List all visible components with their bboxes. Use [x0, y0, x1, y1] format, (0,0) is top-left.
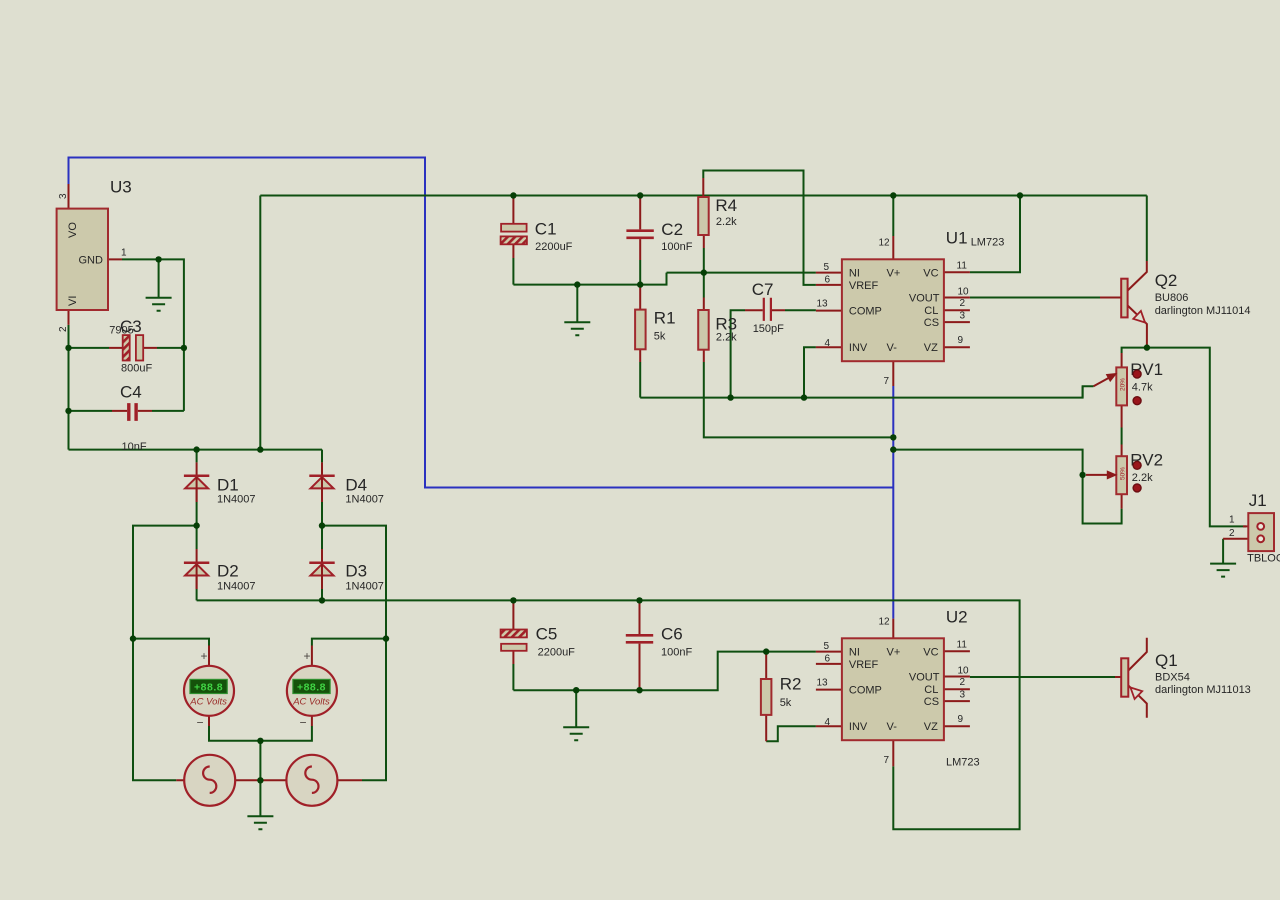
svg-text:100nF: 100nF — [661, 647, 692, 659]
svg-text:COMP: COMP — [849, 305, 882, 317]
svg-text:Q2: Q2 — [1155, 271, 1178, 290]
svg-text:5: 5 — [824, 262, 830, 273]
wire C4 right — [152, 410, 184, 412]
svg-text:NI: NI — [849, 267, 860, 279]
wire D4 top — [321, 450, 323, 463]
wire D1 top — [196, 450, 198, 463]
wire R4 bottom — [703, 248, 705, 273]
svg-text:150pF: 150pF — [753, 323, 784, 335]
svg-text:3: 3 — [960, 311, 966, 322]
capacitor C6 100nF — [626, 600, 693, 690]
wire D4-D3 node — [321, 502, 323, 549]
wire C3 left — [69, 347, 110, 349]
svg-text:C6: C6 — [661, 625, 683, 644]
svg-text:2.2k: 2.2k — [716, 216, 737, 228]
svg-text:5k: 5k — [780, 697, 792, 709]
node C6 bottom — [636, 687, 642, 693]
wire C7 left riser — [731, 310, 745, 397]
svg-text:10: 10 — [958, 666, 970, 677]
wire bridge output y=600.4 to U2 V- loop — [197, 600, 1020, 829]
svg-text:9: 9 — [958, 335, 964, 346]
svg-text:darlington MJ11013: darlington MJ11013 — [1155, 684, 1251, 696]
svg-text:VOUT: VOUT — [909, 292, 940, 304]
wire bridge top y=449.6 — [69, 449, 323, 451]
potentiometer RV2 2.2k — [1086, 445, 1163, 509]
svg-text:1: 1 — [121, 248, 127, 259]
op-amp regulator U1 LM723 — [816, 229, 1004, 388]
svg-text:U3: U3 — [110, 178, 132, 197]
wire C5 C6 top bus tap (part of y=600.4) — [512, 664, 514, 690]
svg-text:10: 10 — [958, 287, 970, 298]
svg-text:CS: CS — [924, 696, 939, 708]
wire INV riser U1 — [804, 347, 816, 397]
resistor R3 2.2k — [698, 298, 737, 363]
node Q2 emitter — [1144, 344, 1150, 350]
transistor Q2 BU806 — [1100, 261, 1251, 348]
svg-text:INV: INV — [849, 342, 868, 354]
resistor R2 5k — [761, 652, 802, 742]
svg-text:9: 9 — [958, 714, 964, 725]
wire voltmeter2 minus — [260, 726, 312, 741]
wire C3 right — [157, 347, 184, 349]
node voltmeter minus join — [257, 738, 263, 744]
svg-text:1N4007: 1N4007 — [217, 581, 256, 593]
svg-text:U1: U1 — [946, 229, 968, 248]
node gnd tap C5 — [573, 687, 579, 693]
node generators mid — [257, 777, 263, 783]
wire J1 pin1 — [1243, 525, 1246, 527]
svg-text:LM723: LM723 — [971, 237, 1005, 249]
svg-text:11: 11 — [957, 640, 968, 651]
svg-text:TBLOCK-M2: TBLOCK-M2 — [1247, 553, 1280, 565]
voltmeter V2 AC Volts — [287, 646, 337, 730]
node C3 left — [65, 345, 71, 351]
wire bridge right leg to generator — [322, 526, 386, 781]
svg-text:4: 4 — [825, 338, 831, 349]
svg-text:BDX54: BDX54 — [1155, 672, 1190, 684]
wire rail from top rail down to bridge x=260.3 — [259, 196, 261, 450]
wire INV bus y=397.6 to RV1 wiper — [640, 386, 1093, 397]
wire voltmeter2 plus — [312, 639, 386, 646]
svg-text:2200uF: 2200uF — [538, 647, 576, 659]
wire Q2 emitter node — [1122, 348, 1243, 527]
svg-text:+88.8: +88.8 — [297, 682, 326, 694]
node R3 blue — [890, 434, 896, 440]
capacitor C2 100nF — [626, 196, 692, 285]
capacitor C4 10nF — [112, 383, 152, 454]
diode D3 1N4007 — [309, 549, 384, 593]
svg-text:V+: V+ — [887, 646, 901, 658]
svg-text:AC Volts: AC Volts — [292, 697, 330, 708]
wire NI line y=272.6 — [667, 272, 816, 274]
diode D4 1N4007 — [309, 462, 384, 505]
transistor Q1 BDX54 — [1115, 638, 1251, 718]
wire R3 top — [703, 273, 705, 298]
wire C7 right to COMP — [785, 309, 816, 311]
svg-text:R2: R2 — [780, 675, 802, 694]
wire main top rail y=195.5 — [260, 195, 1147, 197]
capacitor C1 2200uF — [501, 196, 573, 259]
wire RV1 wiper stub — [1082, 386, 1084, 397]
node V2 plus — [383, 635, 389, 641]
svg-text:1N4007: 1N4007 — [217, 494, 256, 506]
wire R4 top link to VREF — [703, 171, 816, 285]
ground C5 area — [563, 727, 589, 740]
wire ground stem C5 area — [575, 690, 577, 727]
ground C1 area — [564, 322, 590, 335]
svg-text:CL: CL — [924, 684, 938, 696]
svg-text:5k: 5k — [654, 331, 666, 343]
node D3 bottom — [319, 597, 325, 603]
wire J1 pin2 ground — [1222, 539, 1224, 563]
svg-text:11: 11 — [957, 261, 968, 272]
node gnd tap C1 — [574, 281, 580, 287]
capacitor C5 2200uF — [501, 600, 576, 664]
wire C4 left — [69, 410, 113, 412]
svg-text:6: 6 — [825, 274, 831, 285]
svg-text:COMP: COMP — [849, 684, 882, 696]
voltmeter V1 AC Volts — [184, 646, 234, 730]
svg-text:20%: 20% — [1120, 378, 1127, 391]
connector J1 TBLOCK-M2 — [1223, 491, 1280, 565]
wire RV1-RV2 series link — [1121, 428, 1123, 445]
node C5 top — [510, 597, 516, 603]
svg-text:4.7k: 4.7k — [1132, 382, 1153, 394]
svg-text:GND: GND — [79, 255, 104, 267]
svg-text:2: 2 — [58, 326, 69, 332]
wire D1-D2 node — [196, 502, 198, 549]
svg-text:3: 3 — [58, 193, 69, 199]
wire voltmeter1 minus — [209, 726, 260, 741]
svg-text:J1: J1 — [1249, 491, 1267, 510]
svg-text:3: 3 — [960, 690, 966, 701]
svg-text:50%: 50% — [1120, 467, 1127, 480]
svg-text:+: + — [304, 649, 311, 663]
svg-text:VI: VI — [67, 296, 79, 306]
wire U3 GND net — [122, 259, 184, 411]
wire R3 bottom to blue node — [704, 362, 894, 437]
node rail bottom — [257, 446, 263, 452]
wire R1 bottom — [639, 362, 641, 398]
node C2 top — [637, 192, 643, 198]
capacitor C7 150pF — [745, 280, 785, 335]
svg-text:C5: C5 — [536, 625, 558, 644]
node V1 plus — [130, 635, 136, 641]
wire R2 bottom to U2 INV — [766, 726, 816, 741]
potentiometer RV1 4.7k — [1094, 353, 1164, 428]
resistor R4 2.2k — [698, 178, 737, 248]
wire U1 VC riser — [970, 196, 1020, 273]
node INV riser — [801, 394, 807, 400]
svg-text:+: + — [201, 649, 208, 663]
svg-text:R1: R1 — [654, 309, 676, 328]
generator G1 — [176, 755, 260, 806]
svg-text:+88.8: +88.8 — [194, 682, 223, 694]
wire U1 VOUT to Q2 base — [970, 297, 1100, 299]
svg-text:10nF: 10nF — [122, 441, 147, 453]
node U3 gnd — [155, 256, 161, 262]
svg-text:D3: D3 — [345, 562, 367, 581]
node C6 top — [636, 597, 642, 603]
generator G2 — [260, 755, 362, 806]
node D1-D2 — [193, 522, 199, 528]
node C2-R1 — [637, 281, 643, 287]
svg-text:−: − — [300, 716, 307, 730]
node RV2 blue — [890, 446, 896, 452]
svg-text:R4: R4 — [715, 196, 737, 215]
svg-text:800uF: 800uF — [121, 363, 152, 375]
svg-text:2.2k: 2.2k — [1132, 472, 1153, 484]
node C4 left — [65, 408, 71, 414]
wire U2 VOUT to Q1 base — [970, 676, 1115, 678]
wire U1 V+ riser — [892, 196, 894, 237]
svg-text:7: 7 — [884, 376, 890, 387]
svg-text:C7: C7 — [752, 280, 774, 299]
wire C1 bottom — [512, 258, 514, 285]
svg-text:100nF: 100nF — [661, 241, 692, 253]
svg-text:2: 2 — [1229, 528, 1235, 539]
ground U3 — [146, 259, 172, 310]
svg-text:13: 13 — [817, 298, 829, 309]
node C1 top — [510, 192, 516, 198]
svg-text:13: 13 — [817, 677, 829, 688]
node VC rail — [1017, 192, 1023, 198]
regulator U3 7905 — [57, 178, 134, 337]
svg-text:2: 2 — [960, 298, 966, 309]
wire bridge left leg to generator — [133, 526, 197, 781]
node U1 V+ rail — [890, 192, 896, 198]
svg-text:C4: C4 — [120, 383, 142, 402]
svg-text:7: 7 — [884, 755, 890, 766]
svg-text:C1: C1 — [535, 220, 557, 239]
svg-text:Q1: Q1 — [1155, 651, 1178, 670]
svg-text:V+: V+ — [887, 267, 901, 279]
svg-text:2200uF: 2200uF — [535, 241, 573, 253]
node C7 riser — [727, 394, 733, 400]
svg-text:LM723: LM723 — [946, 757, 980, 769]
svg-text:2.2k: 2.2k — [716, 331, 737, 343]
svg-text:NI: NI — [849, 646, 860, 658]
svg-text:VOUT: VOUT — [909, 671, 940, 683]
wire ground stem C1 area — [576, 285, 578, 322]
svg-text:D2: D2 — [217, 562, 239, 581]
wire center ground drop — [259, 741, 261, 816]
svg-text:1N4007: 1N4007 — [345, 581, 384, 593]
svg-text:D1: D1 — [217, 476, 239, 495]
diode D1 1N4007 — [184, 462, 256, 505]
resistor R1 5k — [635, 285, 675, 362]
node RV2 wiper — [1079, 472, 1085, 478]
svg-text:BU806: BU806 — [1155, 292, 1189, 304]
wire blue net from U3 VO to U1 V- and U2 V+ — [69, 158, 894, 619]
svg-text:VREF: VREF — [849, 280, 879, 292]
node R2 top NI U2 — [763, 648, 769, 654]
svg-text:12: 12 — [879, 238, 891, 249]
svg-text:6: 6 — [825, 653, 831, 664]
svg-text:1: 1 — [1229, 515, 1235, 526]
node R4-NI — [701, 269, 707, 275]
svg-text:4: 4 — [825, 717, 831, 728]
wire ground bus y=284.6 — [513, 273, 666, 285]
svg-text:V-: V- — [887, 721, 898, 733]
svg-text:5: 5 — [824, 641, 830, 652]
svg-text:U2: U2 — [946, 608, 968, 627]
wire U3 input rail x=68.5 — [68, 325, 70, 450]
wire ground bus y=690.2 — [513, 652, 816, 691]
svg-text:1N4007: 1N4007 — [345, 494, 384, 506]
svg-text:C3: C3 — [120, 317, 142, 336]
svg-text:VC: VC — [923, 267, 938, 279]
wire D3 bottom — [321, 589, 323, 600]
svg-text:−: − — [197, 716, 204, 730]
wire RV2 net from blue node y=449.6 — [893, 450, 1121, 524]
node D1 top — [193, 446, 199, 452]
svg-text:VC: VC — [923, 646, 938, 658]
svg-text:CS: CS — [924, 317, 939, 329]
diode D2 1N4007 — [184, 549, 256, 593]
svg-text:VZ: VZ — [924, 342, 938, 354]
svg-text:darlington MJ11014: darlington MJ11014 — [1155, 305, 1251, 317]
svg-text:VREF: VREF — [849, 659, 879, 671]
svg-text:VO: VO — [67, 222, 79, 238]
wire D2 bottom — [196, 589, 198, 600]
svg-text:V-: V- — [887, 342, 898, 354]
svg-text:2: 2 — [960, 677, 966, 688]
svg-text:D4: D4 — [345, 476, 367, 495]
svg-text:VZ: VZ — [924, 721, 938, 733]
op-amp regulator U2 LM723 — [816, 608, 980, 769]
ground generators — [247, 816, 273, 829]
svg-text:C2: C2 — [661, 220, 683, 239]
wire Q2 collector to rail — [1146, 196, 1148, 262]
svg-text:CL: CL — [924, 305, 938, 317]
capacitor C3 800uF — [109, 317, 157, 375]
node C3 right — [181, 345, 187, 351]
node D4-D3 — [319, 522, 325, 528]
svg-text:12: 12 — [879, 617, 891, 628]
ground J1 — [1210, 564, 1236, 577]
svg-text:AC Volts: AC Volts — [189, 697, 227, 708]
wire voltmeter1 plus — [133, 639, 209, 646]
svg-text:INV: INV — [849, 721, 868, 733]
